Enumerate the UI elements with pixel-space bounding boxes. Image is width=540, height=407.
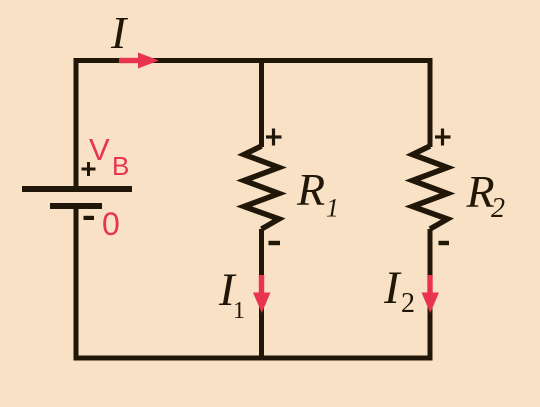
wire right branch upper [428, 58, 433, 147]
svg-text:I: I [110, 7, 129, 58]
svg-text:1: 1 [326, 194, 339, 223]
R1 plus sign [266, 129, 282, 146]
svg-text:B: B [112, 151, 129, 181]
battery VB negative plate [50, 203, 102, 209]
wire right branch lower [428, 229, 433, 360]
svg-text:I: I [383, 262, 402, 314]
wire bottom horizontal [74, 356, 433, 361]
svg-text:1: 1 [233, 298, 245, 324]
current arrow I2 (red, pointing down on right branch) [422, 275, 440, 313]
wire middle branch upper [259, 58, 264, 147]
current arrow I (red, pointing right on top wire) [119, 53, 159, 69]
battery VB positive plate [22, 186, 132, 192]
current arrow I1 (red, pointing down on middle branch) [253, 275, 271, 313]
wire left lower (battery - terminal to bottom) [74, 208, 79, 360]
resistor R2 zigzag [413, 146, 448, 229]
svg-text:V: V [89, 132, 110, 167]
R2 minus sign [439, 241, 450, 245]
svg-text:R: R [296, 164, 325, 215]
svg-text:2: 2 [401, 288, 415, 319]
battery minus sign [84, 216, 95, 220]
wire middle branch lower [259, 229, 264, 360]
svg-text:2: 2 [491, 193, 505, 224]
wire top horizontal [74, 58, 433, 63]
R2 plus sign [435, 129, 451, 146]
battery plus sign [82, 162, 96, 176]
svg-text:0: 0 [102, 206, 120, 242]
R1 minus sign [269, 241, 281, 245]
resistor R1 zigzag [244, 146, 279, 229]
wire left upper (battery + terminal riser) [74, 58, 79, 187]
